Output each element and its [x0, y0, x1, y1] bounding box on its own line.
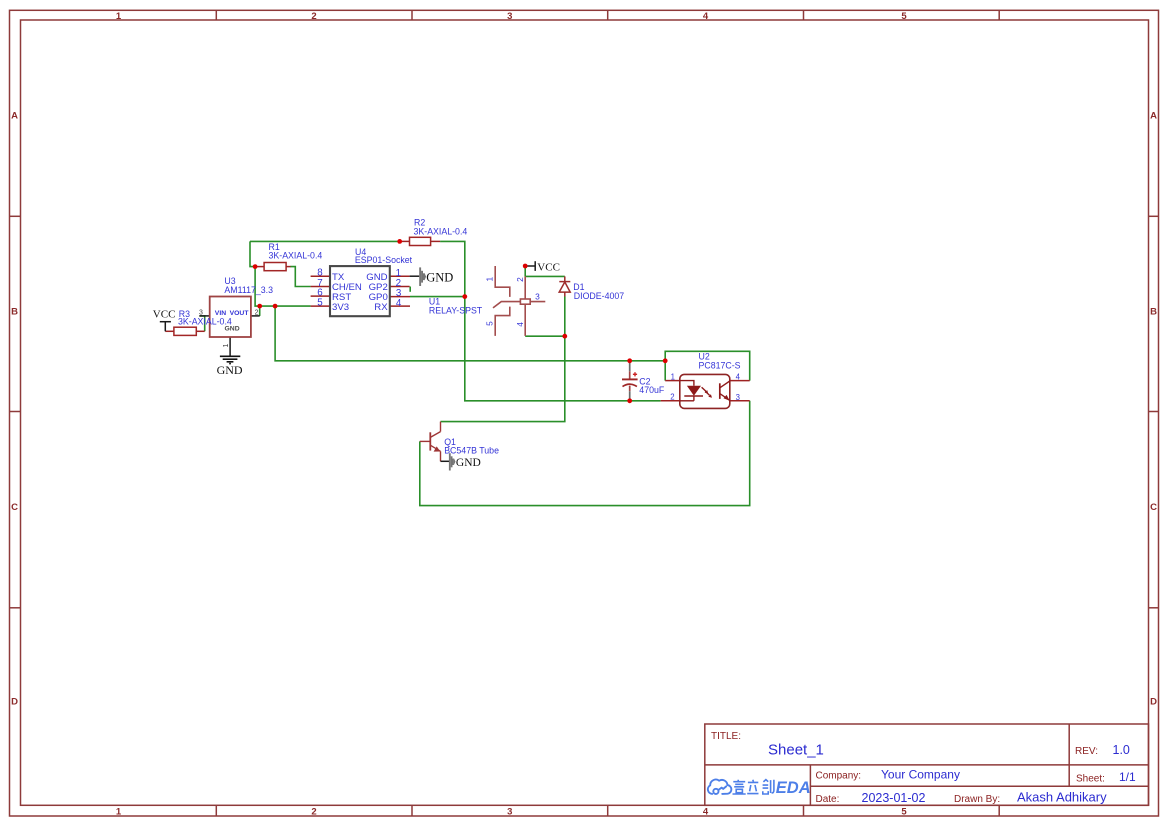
svg-text:VOUT: VOUT — [230, 310, 250, 317]
wire C2 bottom to U2 pin2 — [630, 400, 661, 402]
svg-text:C: C — [1150, 502, 1157, 513]
node junction at R1 left — [253, 264, 258, 269]
svg-text:1: 1 — [116, 807, 122, 818]
svg-text:2: 2 — [255, 309, 259, 316]
svg-text:GND: GND — [426, 270, 453, 284]
TITLE BLOCK — [705, 724, 1149, 805]
IC U2 PC817C-S optocoupler — [661, 352, 750, 409]
svg-text:Sheet_1: Sheet_1 — [768, 742, 824, 759]
svg-text:4: 4 — [396, 298, 402, 309]
svg-text:1: 1 — [671, 372, 675, 381]
svg-text:D: D — [11, 697, 18, 708]
svg-text:3K-AXIAL-0.4: 3K-AXIAL-0.4 — [414, 226, 468, 236]
wire GP2 stub — [409, 287, 411, 292]
IC U3 AM1117_3.3 regulator — [199, 276, 273, 356]
capacitor C2 470uF — [622, 361, 665, 401]
wire C2 top to U2 branch node — [630, 360, 666, 362]
wire Q1 base loop to U2 pin3 — [420, 401, 750, 506]
svg-text:5: 5 — [317, 297, 323, 308]
svg-text:4: 4 — [703, 11, 709, 22]
svg-text:Akash Adhikary: Akash Adhikary — [1017, 790, 1107, 805]
CIRCUIT — [153, 218, 750, 506]
svg-text:DIODE-4007: DIODE-4007 — [574, 291, 624, 301]
node junction VCC relay — [523, 264, 528, 269]
ground earth symbol under U3 — [220, 356, 240, 363]
svg-text:VCC: VCC — [537, 262, 560, 274]
node junction C2 bottom — [627, 398, 632, 403]
diode D1 DIODE-4007 — [559, 276, 570, 296]
wire R1 node down to 3V3 rail — [255, 267, 311, 307]
wire net R2 top left — [250, 240, 400, 242]
svg-text:AM1117_3.3: AM1117_3.3 — [224, 285, 273, 295]
wire 3V3 rail down and across to C2 — [275, 306, 630, 361]
wire left vertical to R1 — [250, 241, 255, 266]
wire branch down to U2 pin1 — [664, 361, 666, 381]
svg-text:3: 3 — [507, 807, 512, 818]
svg-text:Sheet:: Sheet: — [1076, 773, 1105, 784]
wire VCC to relay coil pin2 — [524, 266, 526, 276]
svg-text:Date:: Date: — [816, 794, 840, 805]
svg-text:PC817C-S: PC817C-S — [699, 361, 741, 371]
svg-text:B: B — [1150, 307, 1157, 318]
ground flag GND at Q1 emitter — [441, 453, 481, 470]
svg-text:3K-AXIAL-0.4: 3K-AXIAL-0.4 — [269, 250, 323, 260]
wire GP0 to node — [410, 296, 465, 298]
svg-text:TITLE:: TITLE: — [711, 731, 741, 742]
svg-text:A: A — [11, 111, 18, 122]
svg-text:3: 3 — [507, 11, 512, 22]
svg-text:4: 4 — [515, 322, 525, 327]
svg-text:1.0: 1.0 — [1113, 743, 1130, 757]
node junction at R2 left — [397, 239, 402, 244]
svg-text:Your Company: Your Company — [881, 768, 960, 782]
wire node to U3 VOUT — [259, 306, 261, 316]
node junction D1 anode — [562, 334, 567, 339]
svg-text:4: 4 — [703, 807, 709, 818]
svg-text:2: 2 — [670, 393, 674, 402]
svg-text:4: 4 — [736, 372, 741, 381]
svg-text:470uF: 470uF — [639, 385, 665, 395]
svg-text:5: 5 — [901, 807, 907, 818]
svg-text:3: 3 — [199, 309, 203, 316]
svg-text:C: C — [11, 502, 18, 513]
svg-text:5: 5 — [485, 321, 495, 326]
svg-text:2: 2 — [515, 277, 525, 282]
svg-text:3K-AXIAL-0.4: 3K-AXIAL-0.4 — [178, 317, 232, 327]
svg-text:5: 5 — [901, 11, 907, 22]
wire relay pin2 to D1 cathode — [525, 275, 565, 277]
wire branch over to U2 pin4 — [665, 351, 750, 380]
node junction U2 pin1 branch — [663, 358, 668, 363]
svg-text:EDA: EDA — [776, 779, 811, 797]
node junction C2 top — [627, 358, 632, 363]
svg-text:BC547B Tube: BC547B Tube — [444, 445, 499, 455]
node junction U3 VOUT — [257, 304, 262, 309]
power flag VCC (left) — [153, 308, 176, 331]
svg-text:VCC: VCC — [153, 308, 176, 320]
svg-text:1: 1 — [116, 11, 122, 22]
power flag VCC (relay) — [525, 261, 560, 273]
svg-text:Company:: Company: — [816, 771, 862, 782]
wire R3 to U3 VIN — [200, 316, 205, 331]
wire relay pin4 to D1 anode node — [525, 335, 565, 337]
IC U4 ESP01-Socket — [311, 247, 413, 316]
svg-text:B: B — [11, 307, 18, 318]
svg-text:Drawn By:: Drawn By: — [954, 794, 1000, 805]
svg-text:RX: RX — [374, 302, 388, 313]
svg-text:REV:: REV: — [1075, 746, 1098, 757]
svg-text:GND: GND — [225, 326, 240, 333]
relay U1 RELAY-SPST — [493, 266, 545, 336]
resistor R1 — [255, 242, 322, 287]
svg-text:GND: GND — [456, 457, 481, 469]
svg-text:1: 1 — [485, 277, 495, 282]
resistor R3 — [165, 327, 204, 335]
wire D1 anode down to Q1 collector — [441, 297, 565, 422]
LOGO — [708, 780, 732, 794]
wire GP0 node down to C2 bottom — [465, 297, 630, 401]
svg-text:A: A — [1150, 111, 1157, 122]
svg-text:RELAY-SPST: RELAY-SPST — [429, 306, 483, 316]
wire R2 right to GP0 node — [440, 241, 465, 296]
svg-text:1: 1 — [223, 344, 230, 348]
svg-text:2: 2 — [311, 11, 316, 22]
svg-text:2: 2 — [311, 807, 316, 818]
svg-text:ESP01-Socket: ESP01-Socket — [355, 255, 413, 265]
ground flag GND at U4 pin 1 — [410, 267, 454, 286]
transistor Q1 BC547B — [420, 422, 499, 462]
svg-text:3: 3 — [736, 393, 740, 402]
resistor R2 — [400, 218, 468, 246]
svg-text:GND: GND — [217, 363, 243, 377]
svg-text:2023-01-02: 2023-01-02 — [862, 791, 926, 805]
EDA italic — [776, 779, 811, 797]
node junction 3V3 rail — [273, 304, 278, 309]
svg-text:1/1: 1/1 — [1119, 770, 1136, 784]
relay U1 pin numbers 1 5 2 4 3 — [485, 277, 541, 327]
svg-text:3: 3 — [535, 292, 540, 302]
svg-text:D: D — [1150, 697, 1157, 708]
node junction GP0 net — [462, 294, 467, 299]
svg-text:3V3: 3V3 — [332, 302, 349, 313]
